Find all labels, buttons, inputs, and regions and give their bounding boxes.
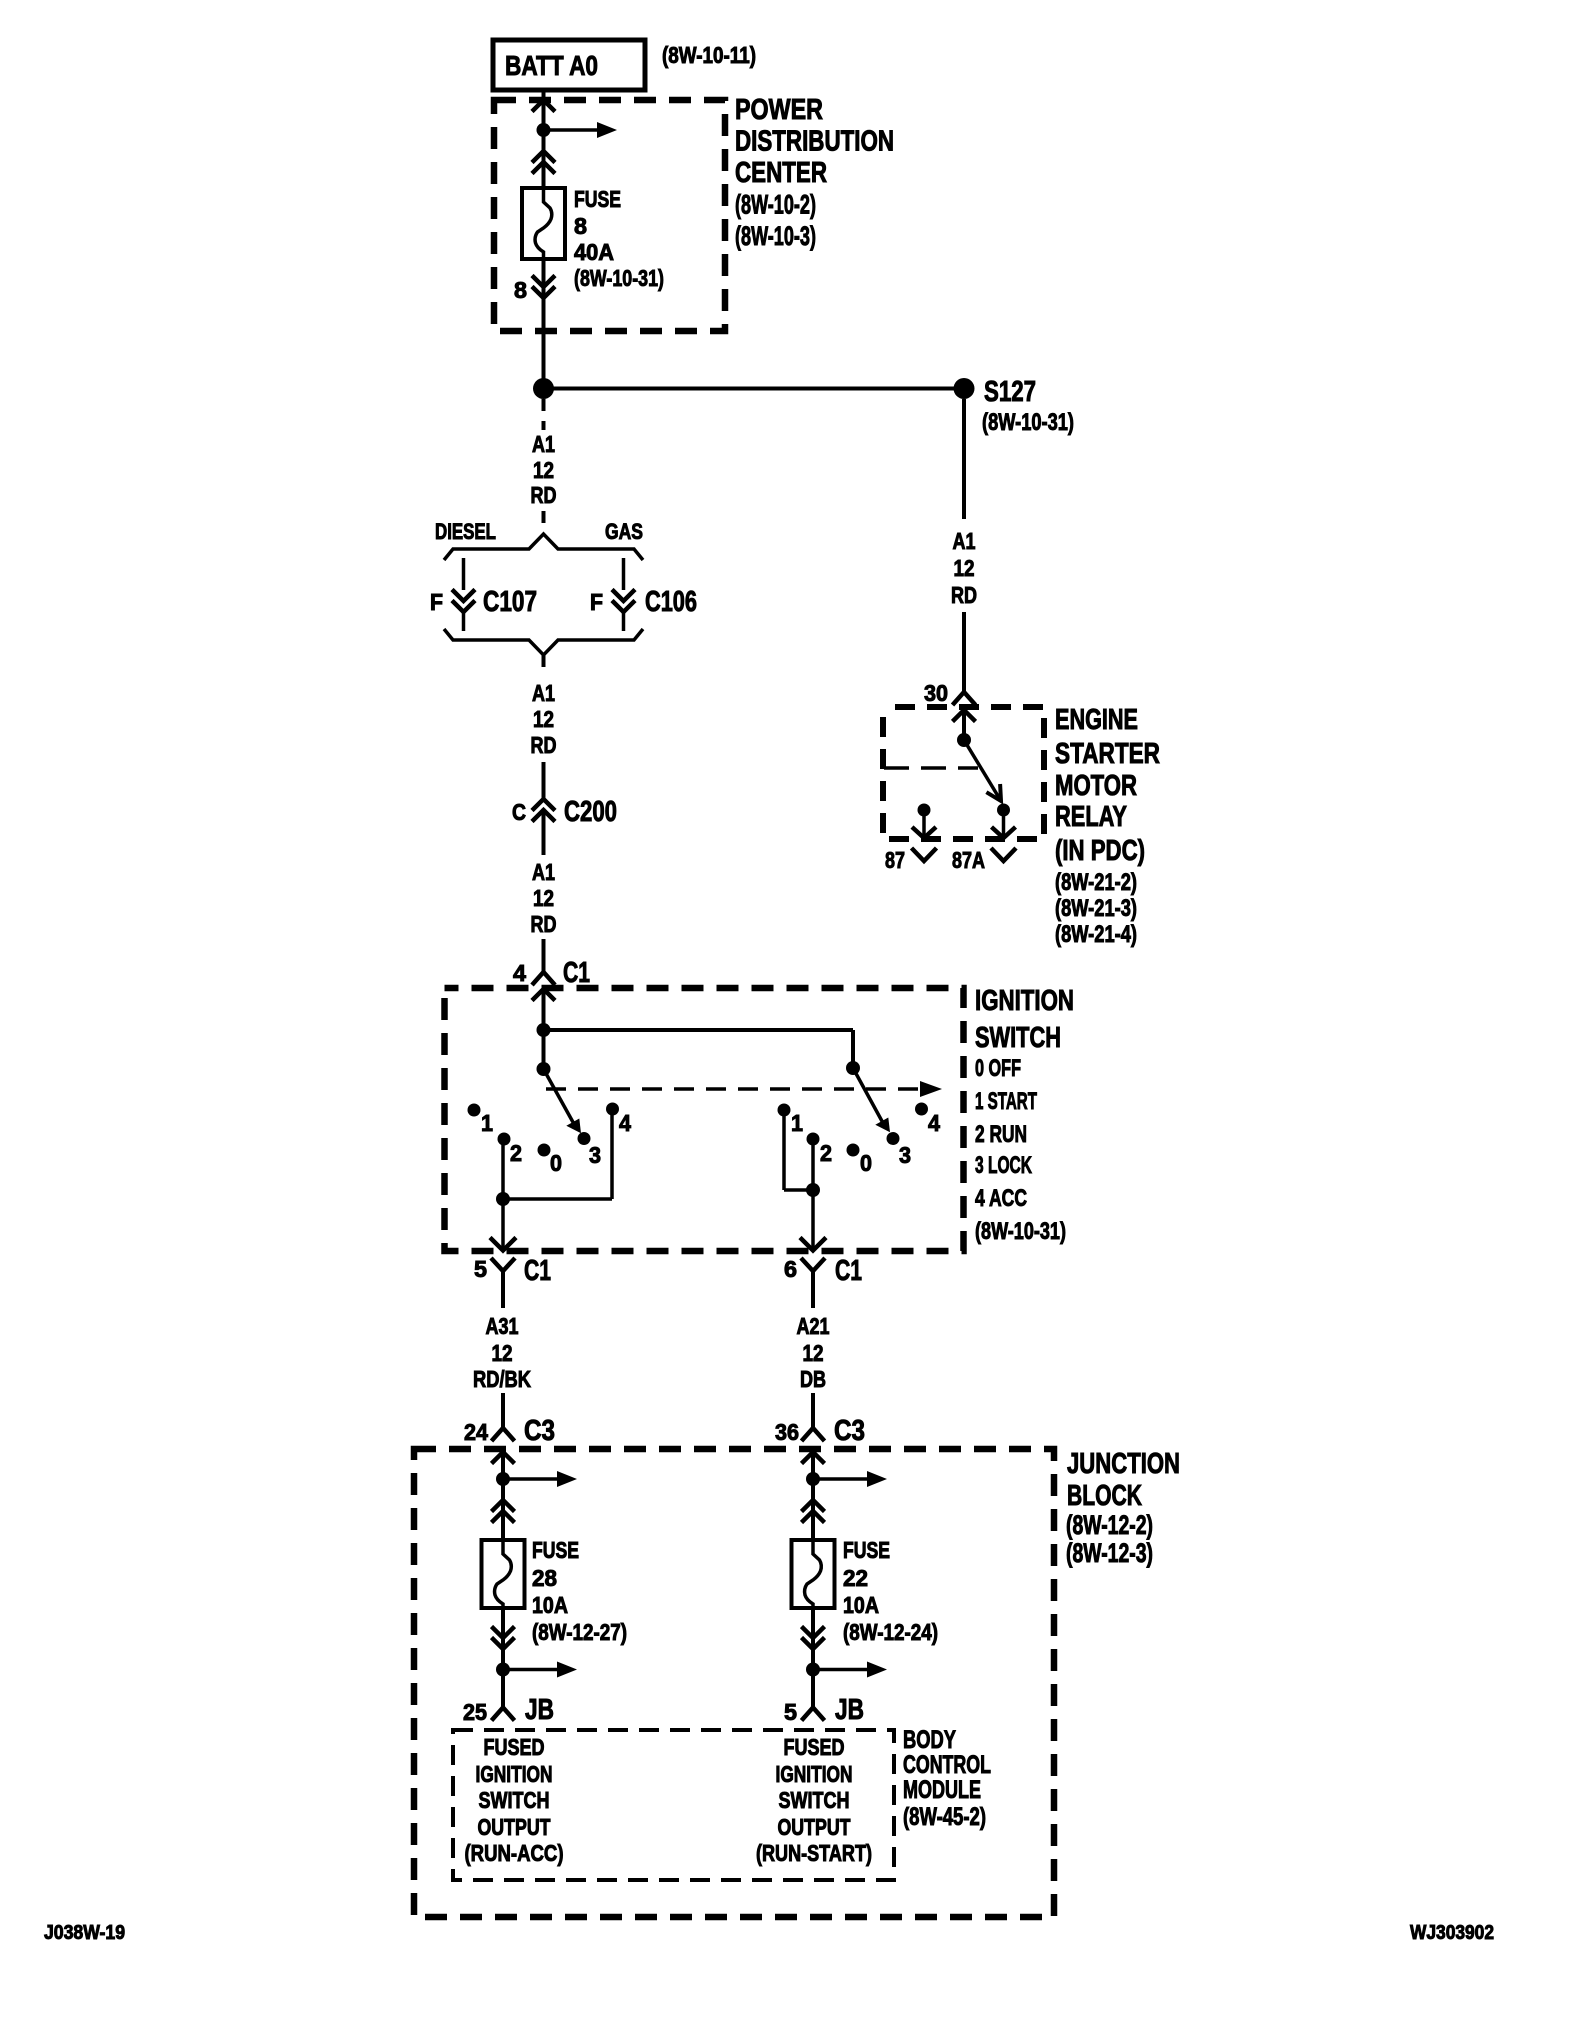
svg-text:30: 30 — [924, 680, 948, 706]
svg-text:(8W-12-27): (8W-12-27) — [532, 1619, 627, 1645]
svg-text:(8W-12-24): (8W-12-24) — [843, 1619, 938, 1645]
svg-text:0: 0 — [550, 1150, 562, 1176]
svg-text:IGNITION: IGNITION — [476, 1761, 553, 1787]
svg-text:J038W-19: J038W-19 — [44, 1922, 125, 1944]
svg-text:(8W-12-3): (8W-12-3) — [1066, 1538, 1153, 1568]
svg-text:(8W-21-4): (8W-21-4) — [1055, 921, 1137, 948]
svg-text:C1: C1 — [835, 1255, 862, 1287]
svg-text:5: 5 — [784, 1699, 797, 1725]
svg-text:STARTER: STARTER — [1055, 738, 1160, 770]
svg-text:C3: C3 — [834, 1415, 865, 1447]
svg-text:10A: 10A — [843, 1592, 879, 1618]
svg-text:A1: A1 — [953, 528, 976, 554]
svg-text:12: 12 — [954, 555, 975, 581]
svg-text:1: 1 — [791, 1110, 803, 1136]
svg-text:RELAY: RELAY — [1055, 801, 1127, 833]
svg-text:A1: A1 — [532, 859, 555, 885]
svg-text:12: 12 — [533, 706, 554, 732]
svg-text:4 ACC: 4 ACC — [975, 1185, 1027, 1212]
svg-text:ENGINE: ENGINE — [1055, 704, 1138, 736]
svg-text:CONTROL: CONTROL — [903, 1751, 991, 1779]
svg-text:MOTOR: MOTOR — [1055, 770, 1137, 802]
svg-text:F: F — [430, 589, 443, 615]
svg-text:4: 4 — [928, 1110, 940, 1136]
svg-text:(IN PDC): (IN PDC) — [1055, 835, 1145, 867]
svg-text:10A: 10A — [532, 1592, 568, 1618]
svg-text:22: 22 — [843, 1565, 868, 1591]
svg-text:(8W-21-2): (8W-21-2) — [1055, 869, 1137, 896]
svg-text:A1: A1 — [532, 431, 555, 457]
svg-text:12: 12 — [492, 1340, 513, 1366]
svg-text:IGNITION: IGNITION — [975, 985, 1074, 1017]
svg-text:SWITCH: SWITCH — [479, 1787, 550, 1813]
svg-text:A21: A21 — [797, 1313, 830, 1339]
svg-text:JUNCTION: JUNCTION — [1067, 1448, 1180, 1480]
svg-text:3: 3 — [899, 1142, 911, 1168]
svg-text:(8W-10-31): (8W-10-31) — [982, 409, 1074, 436]
svg-text:RD: RD — [531, 732, 557, 758]
svg-text:FUSE: FUSE — [574, 186, 621, 212]
svg-text:C3: C3 — [524, 1415, 555, 1447]
svg-text:DB: DB — [800, 1366, 826, 1392]
svg-text:8: 8 — [574, 213, 587, 239]
svg-text:OUTPUT: OUTPUT — [478, 1814, 551, 1840]
svg-text:0: 0 — [860, 1150, 872, 1176]
svg-text:0 OFF: 0 OFF — [975, 1055, 1021, 1082]
svg-text:(8W-10-2): (8W-10-2) — [735, 190, 816, 220]
svg-text:F: F — [590, 589, 603, 615]
svg-text:C1: C1 — [524, 1255, 551, 1287]
svg-text:36: 36 — [775, 1419, 799, 1445]
svg-text:28: 28 — [532, 1565, 557, 1591]
svg-text:(8W-45-2): (8W-45-2) — [903, 1803, 986, 1831]
svg-text:87A: 87A — [952, 847, 985, 873]
svg-text:(8W-10-3): (8W-10-3) — [735, 221, 816, 251]
svg-text:RD: RD — [951, 582, 977, 608]
svg-text:WJ303902: WJ303902 — [1410, 1922, 1494, 1944]
svg-text:BATT A0: BATT A0 — [505, 50, 598, 81]
svg-text:40A: 40A — [574, 239, 614, 265]
svg-text:POWER: POWER — [735, 94, 823, 126]
svg-text:1: 1 — [481, 1110, 493, 1136]
svg-text:JB: JB — [835, 1694, 864, 1726]
svg-text:24: 24 — [464, 1419, 488, 1445]
svg-text:SWITCH: SWITCH — [779, 1787, 850, 1813]
svg-text:A1: A1 — [532, 680, 555, 706]
svg-text:12: 12 — [533, 885, 554, 911]
svg-text:BODY: BODY — [903, 1726, 956, 1754]
svg-text:(8W-10-31): (8W-10-31) — [574, 265, 664, 291]
svg-text:(RUN-ACC): (RUN-ACC) — [465, 1840, 564, 1866]
svg-text:8: 8 — [514, 277, 527, 303]
svg-text:6: 6 — [784, 1256, 797, 1282]
svg-text:C107: C107 — [483, 586, 537, 618]
svg-text:3 LOCK: 3 LOCK — [975, 1152, 1032, 1179]
svg-text:2 RUN: 2 RUN — [975, 1121, 1027, 1148]
svg-text:2: 2 — [820, 1140, 832, 1166]
svg-text:C1: C1 — [563, 957, 590, 989]
svg-text:1 START: 1 START — [975, 1088, 1037, 1115]
svg-text:87: 87 — [885, 847, 905, 873]
svg-text:FUSED: FUSED — [484, 1734, 545, 1760]
svg-text:(8W-10-11): (8W-10-11) — [662, 42, 756, 68]
svg-text:12: 12 — [533, 457, 554, 483]
svg-text:RD: RD — [531, 911, 557, 937]
svg-text:C200: C200 — [564, 796, 617, 828]
svg-text:3: 3 — [589, 1142, 601, 1168]
svg-text:4: 4 — [619, 1110, 631, 1136]
svg-text:4: 4 — [513, 960, 526, 986]
svg-text:5: 5 — [474, 1256, 487, 1282]
svg-text:CENTER: CENTER — [735, 157, 827, 189]
svg-text:S127: S127 — [984, 376, 1036, 408]
svg-text:IGNITION: IGNITION — [776, 1761, 853, 1787]
svg-text:DIESEL: DIESEL — [435, 519, 496, 544]
svg-text:JB: JB — [525, 1694, 554, 1726]
svg-text:RD/BK: RD/BK — [473, 1366, 531, 1392]
svg-text:MODULE: MODULE — [903, 1776, 981, 1804]
svg-text:(RUN-START): (RUN-START) — [756, 1840, 872, 1866]
svg-text:SWITCH: SWITCH — [975, 1022, 1061, 1054]
svg-text:FUSED: FUSED — [784, 1734, 845, 1760]
svg-text:(8W-10-31): (8W-10-31) — [975, 1218, 1066, 1245]
svg-text:RD: RD — [531, 482, 557, 508]
svg-text:C: C — [512, 799, 526, 825]
svg-text:C106: C106 — [645, 586, 697, 618]
svg-text:2: 2 — [510, 1140, 522, 1166]
svg-text:FUSE: FUSE — [532, 1537, 579, 1563]
svg-text:(8W-12-2): (8W-12-2) — [1066, 1510, 1153, 1540]
svg-text:25: 25 — [463, 1699, 487, 1725]
svg-text:A31: A31 — [486, 1313, 519, 1339]
svg-text:(8W-21-3): (8W-21-3) — [1055, 895, 1137, 922]
svg-text:GAS: GAS — [605, 519, 643, 544]
svg-text:12: 12 — [803, 1340, 824, 1366]
svg-text:BLOCK: BLOCK — [1067, 1480, 1142, 1512]
svg-text:FUSE: FUSE — [843, 1537, 890, 1563]
svg-text:DISTRIBUTION: DISTRIBUTION — [735, 126, 894, 158]
svg-text:OUTPUT: OUTPUT — [778, 1814, 851, 1840]
